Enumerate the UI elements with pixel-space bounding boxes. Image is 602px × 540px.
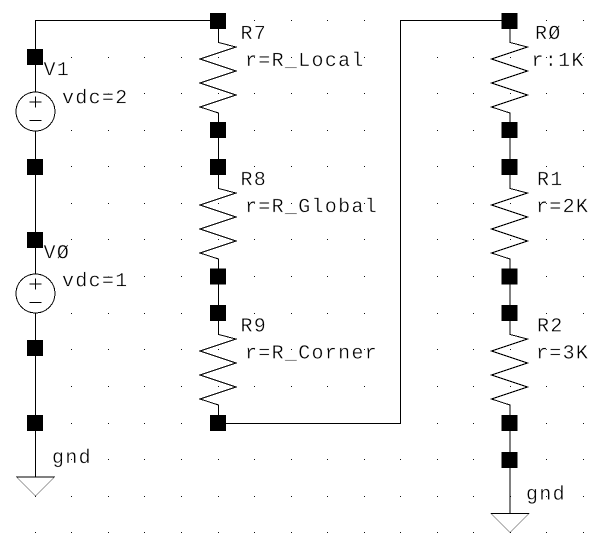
- label V1 value vdc=2: [63, 89, 126, 104]
- wire riser vertical (bottom net up to top right): [400, 21, 402, 424]
- vsource V0 body: [16, 274, 55, 313]
- resistor R7: [200, 21, 236, 130]
- label R7 instance name: [242, 26, 264, 39]
- node R0 top pin (solder square): [502, 13, 518, 29]
- label right gnd net: [527, 485, 562, 504]
- label V0 value vdc=1: [63, 272, 127, 287]
- resistor R9: [200, 313, 236, 423]
- label R9 value r=R_Corner: [247, 345, 375, 361]
- ground symbol (right, gnd): [491, 460, 529, 533]
- wire right column R1-R2: [509, 276, 511, 313]
- node left gnd pin (solder square): [27, 415, 43, 431]
- wire middle column R7-R8: [218, 130, 220, 167]
- node R1 bottom pin (solder square): [502, 269, 518, 285]
- node R1 top pin (solder square): [502, 159, 518, 175]
- node R2 top pin (solder square): [502, 305, 518, 321]
- label R8 instance name: [242, 172, 264, 186]
- label left gnd net: [53, 449, 88, 468]
- label R9 instance name: [242, 318, 264, 332]
- wire right column R2 to gnd pin: [509, 423, 511, 460]
- node V0 minus pin (solder square): [27, 340, 43, 356]
- label V0 instance name: [44, 245, 69, 259]
- node V1 minus pin (solder square): [27, 159, 43, 175]
- wire top-right horizontal (riser to R0 top): [401, 20, 511, 22]
- wire middle column R8-R9: [218, 276, 220, 313]
- wire left column vertical (top corner down through V1/V0 to gnd): [35, 21, 37, 478]
- label R8 value r=R_Global: [247, 198, 375, 215]
- node V1 plus pin (solder square): [27, 49, 43, 65]
- resistor R2: [492, 313, 528, 423]
- node right gnd pin (solder square): [502, 452, 518, 468]
- wire right column R0-R1: [509, 130, 511, 167]
- node R0 bottom pin (solder square): [502, 122, 518, 138]
- node R7 bottom pin (solder square): [210, 122, 226, 138]
- node R2 bottom pin (solder square): [502, 415, 518, 431]
- node V0 plus pin (solder square): [27, 232, 43, 248]
- node R7 top pin (solder square): [210, 13, 226, 29]
- node R8 bottom pin (solder square): [210, 269, 226, 285]
- label R0 instance name: [537, 25, 560, 39]
- label R7 value r=R_Local: [247, 52, 362, 69]
- resistor R8: [200, 167, 236, 277]
- ground symbol (left, gnd): [17, 423, 55, 497]
- resistor R0: [492, 21, 528, 130]
- label R2 value r=3K: [538, 345, 588, 359]
- label R2 instance name: [539, 318, 561, 331]
- node R8 top pin (solder square): [210, 159, 226, 175]
- label R1 instance name: [539, 172, 562, 185]
- label R0 value r:1K: [534, 53, 584, 66]
- node R9 bottom pin (solder square): [210, 415, 226, 431]
- wire bottom middle horizontal (R9 bottom to riser): [219, 423, 401, 425]
- label R1 value r=2K: [538, 199, 588, 212]
- node R9 top pin (solder square): [210, 305, 226, 321]
- wire top-left horizontal (V1 plus to R7 top): [36, 20, 219, 22]
- label V1 instance name: [44, 62, 68, 75]
- vsource V1 body: [16, 92, 55, 131]
- resistor R1: [492, 167, 528, 277]
